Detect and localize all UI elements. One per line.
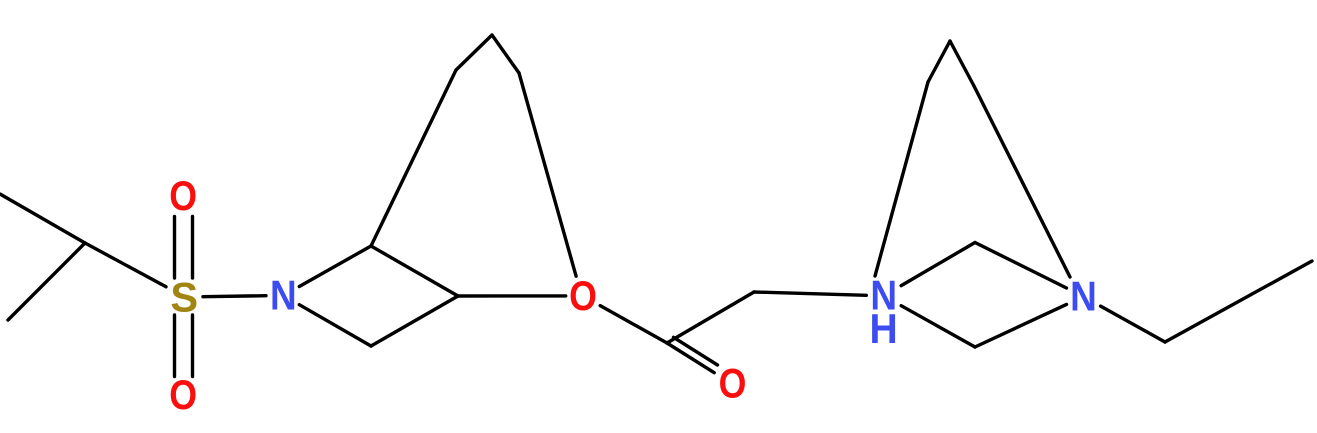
bond CH-S — [85, 243, 166, 287]
bond N2-Vs — [1101, 306, 1165, 342]
svg-text:O: O — [569, 273, 597, 319]
bond ML-apex — [456, 35, 492, 70]
bond apexR-MRR — [950, 41, 974, 86]
bond NH-Vr — [901, 306, 975, 347]
bond Vs-term — [1165, 261, 1312, 342]
bond A1-ML — [371, 70, 456, 246]
bond MRL-NH — [875, 82, 928, 276]
bond Tr-N2 — [975, 243, 1067, 289]
bond NH-Tr — [901, 243, 975, 286]
bond apex-MR — [492, 35, 519, 73]
svg-text:H: H — [869, 305, 897, 353]
S=O top line b — [191, 217, 194, 279]
bond C1c=O4 main — [667, 343, 714, 373]
bond MR-O3 — [519, 73, 576, 276]
S=O bottom line b — [191, 315, 194, 377]
bond S-N1 — [203, 296, 266, 297]
bond C1c-C2c — [667, 292, 754, 343]
bond A3-O3 — [458, 294, 566, 298]
bond A3-A2 — [371, 296, 458, 346]
S=O bottom line a — [173, 315, 176, 377]
bond A1-A3 — [371, 246, 458, 296]
bond A2-N1 — [299, 305, 371, 346]
bond C1c=O4 par — [674, 337, 718, 365]
bond apexR-MRL — [928, 41, 950, 82]
bond O3-C1c — [600, 306, 667, 343]
svg-text:O: O — [169, 173, 197, 219]
svg-text:N: N — [270, 272, 297, 319]
S=O top line a — [173, 217, 176, 279]
bond N1-A1 — [299, 246, 371, 287]
bond C2c-NH — [754, 292, 866, 295]
bond Vr-N2 — [975, 304, 1067, 347]
svg-text:O: O — [169, 372, 197, 418]
bond CH3 up-left — [0, 194, 85, 243]
svg-text:O: O — [719, 361, 747, 407]
svg-text:S: S — [170, 273, 198, 320]
bond MRR-N2 — [974, 86, 1070, 277]
svg-text:N: N — [1070, 273, 1097, 320]
bond CH3 down-left — [8, 243, 85, 320]
